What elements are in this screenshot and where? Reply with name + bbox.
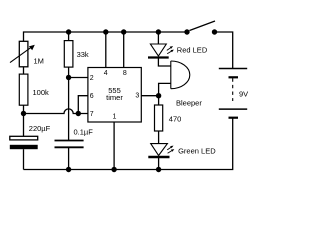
wire 220uF to bottom rail xyxy=(23,149,25,169)
node: switch right contact xyxy=(212,29,217,34)
wire pin4 xyxy=(105,32,107,68)
svg-text:220µF: 220µF xyxy=(29,124,51,133)
svg-text:4: 4 xyxy=(104,70,108,77)
battery B1 inter-cell dashed link xyxy=(232,78,234,101)
wire pin3 stub xyxy=(141,95,158,97)
IC U1 555 timer box xyxy=(88,68,141,123)
resistor R2 100k body xyxy=(19,74,28,105)
capacitor C1 220uF positive plate xyxy=(10,136,38,140)
capacitor C2 0.1uF plates xyxy=(55,141,84,148)
svg-text:Bleeper: Bleeper xyxy=(176,98,202,107)
node: rail-pin4 xyxy=(103,29,108,34)
node A: 100k/220uF/pin7 junction xyxy=(21,111,26,116)
node: greenled-ground xyxy=(156,167,161,172)
svg-text:2: 2 xyxy=(90,75,94,82)
svg-text:6: 6 xyxy=(90,93,94,100)
wire 33k column top xyxy=(68,32,70,41)
wire left column between 1M and 100k xyxy=(23,67,25,74)
node: switch left contact xyxy=(184,29,189,34)
node: 0.1uF-ground xyxy=(66,167,71,172)
wire bottom rail xyxy=(24,118,233,170)
svg-text:9V: 9V xyxy=(239,89,248,98)
svg-text:1M: 1M xyxy=(34,57,44,66)
svg-text:8: 8 xyxy=(123,70,127,77)
node: rail-33k xyxy=(66,29,71,34)
wire top rail right section xyxy=(215,32,233,68)
wire red LED column from rail xyxy=(157,32,159,44)
resistor VR1 1M body xyxy=(19,41,28,67)
resistor VR1 1M arrow xyxy=(10,45,35,63)
wire node B down to 0.1uF xyxy=(68,78,70,141)
node: pin6/pin7 junction xyxy=(76,111,81,116)
resistor R1 33k body xyxy=(64,41,73,68)
diode D2 Green LED light arrows xyxy=(167,146,174,154)
svg-text:3: 3 xyxy=(135,92,139,99)
wire 470 to green LED xyxy=(158,131,160,144)
svg-text:0.1µF: 0.1µF xyxy=(74,128,94,137)
node C: pin3/bleeper/470 junction xyxy=(156,93,161,98)
wire pin2 stub xyxy=(69,77,88,79)
diode D1 Red LED xyxy=(148,44,169,58)
wire pin1 xyxy=(113,122,115,170)
node: rail-pin8 xyxy=(121,29,126,34)
svg-text:7: 7 xyxy=(90,111,94,118)
wire node A to pin7 with hop over vertical xyxy=(24,109,88,114)
battery B1 cell1 negative plate xyxy=(229,76,239,78)
node: pin1-ground xyxy=(111,167,116,172)
diode D2 Green LED xyxy=(148,144,169,157)
wire node C to 470 xyxy=(158,96,160,105)
bleeper LS1 xyxy=(171,61,190,89)
svg-text:470: 470 xyxy=(169,114,182,123)
wire bleeper bottom lead to node C xyxy=(159,83,171,95)
wire node A down to 220uF xyxy=(23,114,25,137)
wire 0.1uF to bottom rail xyxy=(68,147,70,169)
wire left column 100k to node A xyxy=(23,105,25,113)
node: rail-redled xyxy=(156,29,161,34)
wire green LED to bottom rail xyxy=(158,158,160,170)
switch S1 xyxy=(190,21,216,31)
svg-text:timer: timer xyxy=(106,93,123,102)
svg-text:1: 1 xyxy=(113,113,117,120)
wire red LED cathode to bleeper top lead xyxy=(158,58,170,67)
svg-text:100k: 100k xyxy=(33,88,50,97)
wire pin6 branch xyxy=(78,96,88,114)
capacitor C1 220uF negative plate xyxy=(10,145,38,149)
diode D1 Red LED light arrows xyxy=(167,46,174,54)
svg-text:Red LED: Red LED xyxy=(177,45,208,54)
svg-text:33k: 33k xyxy=(77,50,89,59)
wire top rail left section xyxy=(24,32,188,41)
battery B1 cell2 positive plate xyxy=(219,108,247,110)
battery B1 9V cell1 positive plate xyxy=(219,69,247,118)
node B: 33k/pin2/0.1uF junction xyxy=(66,75,71,80)
battery B1 cell2 negative plate xyxy=(229,117,239,119)
resistor R3 470 body xyxy=(155,105,163,131)
wire 33k bottom to node B xyxy=(68,67,70,77)
wire pin8 xyxy=(123,32,125,68)
svg-text:Green LED: Green LED xyxy=(178,146,216,155)
